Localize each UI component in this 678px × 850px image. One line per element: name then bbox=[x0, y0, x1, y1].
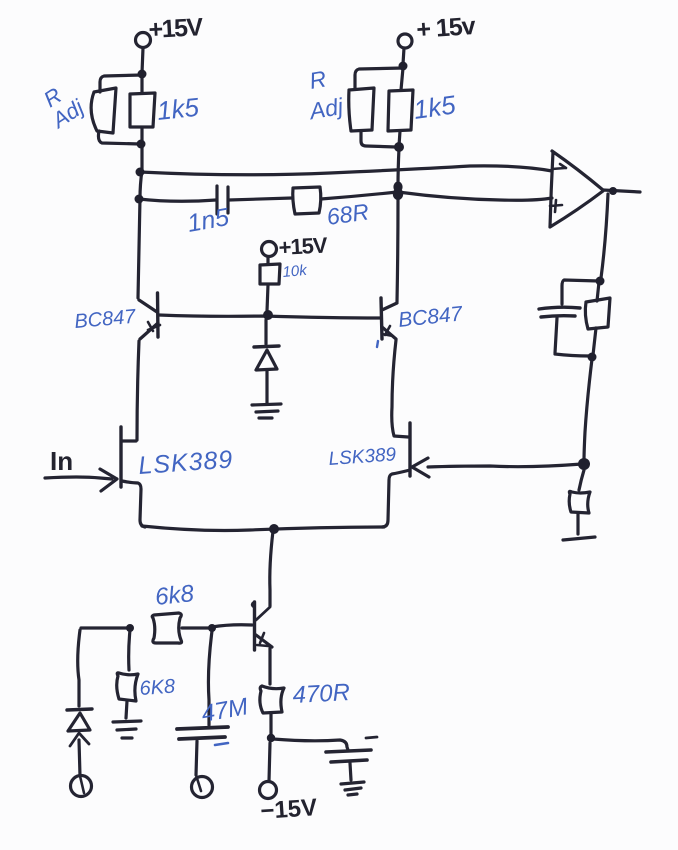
ground stub line bbox=[563, 537, 595, 540]
capacitor 1n5 plate left bbox=[215, 186, 218, 214]
wire inside terminal bottom left bbox=[80, 776, 84, 793]
wire 10K bottom to base rail bbox=[267, 285, 268, 311]
wire feedback cap bottom stub bbox=[555, 318, 590, 356]
wire BC847 right emitter diagonal bbox=[382, 327, 396, 339]
wire 47M to terminal bbox=[196, 741, 197, 775]
capacitor feedback bottom plate bbox=[541, 316, 575, 317]
node left +15V junction bbox=[138, 70, 147, 79]
arrow BC847 left emitter bbox=[148, 322, 160, 331]
wire 1n5 to 68R bbox=[229, 198, 292, 200]
wire D2 to terminal bbox=[79, 740, 80, 776]
wire bottom rail bbox=[142, 526, 384, 531]
wire left branch down to diode D2 bbox=[78, 630, 80, 706]
node 6k8 rail right bbox=[208, 624, 216, 632]
wire left JFET source to bottom rail bbox=[122, 481, 145, 527]
terminal +15V middle (circle) bbox=[262, 242, 277, 257]
node plus line right upper bbox=[393, 182, 402, 193]
JFET LSK389 right channel bar bbox=[408, 423, 411, 476]
resistor 10K (box) bbox=[260, 264, 280, 284]
svg-text:10k: 10k bbox=[282, 262, 309, 281]
svg-text:6k8: 6k8 bbox=[154, 580, 196, 611]
node feedback bottom bbox=[588, 353, 597, 362]
diode D2 cathode bar bbox=[67, 709, 92, 710]
wire BC847 left emitter diagonal bbox=[140, 323, 158, 339]
wire op-amp output down to feedback bbox=[601, 194, 608, 278]
wire Q3 emitter down to 470R bbox=[268, 648, 271, 684]
wire base rail between BC847s bbox=[159, 315, 380, 318]
transistor BC847 left bar bbox=[156, 293, 160, 337]
transistor BC847 right bar bbox=[381, 298, 382, 339]
wire branch to R-Adj left top bbox=[100, 75, 142, 92]
wire decoupling cap to ground bbox=[350, 763, 351, 780]
diode D1 cathode bar bbox=[254, 346, 279, 347]
wire inside terminal bottom middle bbox=[196, 775, 201, 791]
wire feedback node down to gate node bbox=[584, 359, 592, 461]
op-amp minus input mark bbox=[552, 164, 566, 169]
transistor Q3 bar bbox=[253, 602, 256, 650]
node minus line left bbox=[136, 168, 145, 177]
svg-text:470R: 470R bbox=[292, 679, 351, 709]
capacitor 47M bottom plate bbox=[179, 737, 225, 739]
wire BC847 left collector diagonal bbox=[139, 300, 157, 312]
arrow BC847 right emitter bbox=[382, 326, 393, 336]
arrow Q3 emitter bbox=[257, 633, 268, 646]
capacitor decoupling top plate bbox=[326, 750, 371, 752]
arrow gate right JFET bbox=[412, 458, 429, 477]
svg-text:+15V: +15V bbox=[148, 13, 204, 44]
trimmer R Adj right (box) bbox=[349, 88, 374, 131]
wire feedback resistor top stub bbox=[597, 282, 599, 301]
wire right 1K5 bottom to node bbox=[399, 131, 400, 146]
ground symbol 6K8 bbox=[113, 721, 141, 738]
svg-text:1k5: 1k5 bbox=[155, 92, 200, 126]
capacitor decoupling bottom plate bbox=[331, 760, 367, 762]
diode D2 triangle bbox=[68, 713, 90, 731]
wire 6K8 shunt to ground bbox=[126, 701, 127, 718]
wire +15V left stem bbox=[142, 48, 143, 73]
wire branch to R-Adj right top bbox=[355, 68, 403, 88]
resistor 6k8 series (box) bbox=[152, 613, 181, 643]
arrow In gate bbox=[100, 469, 117, 491]
op-amp U1 triangle bbox=[550, 151, 603, 227]
wire -15V node to terminal bbox=[269, 743, 270, 781]
wire 6K8 shunt top bbox=[129, 630, 130, 670]
node 6k8 rail left bbox=[126, 624, 134, 632]
terminal +15V left (circle) bbox=[136, 33, 151, 48]
wire +15V right stem bbox=[403, 48, 404, 64]
wire BC847 right collector diagonal bbox=[382, 303, 397, 310]
wire 6k8 rail left segment bbox=[81, 626, 130, 629]
wire 6k8 rail right segment bbox=[182, 626, 211, 629]
wire +15V middle stem bbox=[266, 257, 269, 264]
node base rail bbox=[263, 310, 273, 320]
wire plus node to op-amp plus input bbox=[398, 192, 552, 200]
wire 470R to -15V node bbox=[269, 713, 272, 736]
capacitor 47M top plate bbox=[177, 727, 228, 729]
wire feedback top left to cap bbox=[562, 280, 599, 304]
node left R-Adj bottom junction bbox=[137, 140, 146, 149]
terminal bottom left (circle) bbox=[71, 776, 92, 797]
wire right rail down through plus node to BC847 right collector bbox=[397, 148, 399, 302]
svg-text:1k5: 1k5 bbox=[412, 89, 458, 125]
label R Adj right bbox=[300, 63, 345, 124]
svg-text:6K8: 6K8 bbox=[139, 676, 176, 700]
resistor 6K8 shunt (box) bbox=[117, 673, 138, 701]
polarity tick decoupling cap bbox=[366, 737, 377, 738]
wire gate node down to resistor bbox=[579, 470, 584, 490]
wire base rail node down to diode bbox=[264, 320, 267, 344]
wire diode to ground bbox=[265, 370, 268, 403]
node feedback top bbox=[596, 277, 605, 286]
wire R-Adj left bottom to rail bbox=[98, 131, 140, 144]
wire Q3 base from 6k8 rail bbox=[212, 625, 252, 627]
node plus line left bbox=[135, 195, 144, 204]
ground symbol bottom right bbox=[341, 782, 364, 795]
wire feedback resistor bottom stub bbox=[593, 328, 596, 355]
polarity minus 47M bbox=[215, 743, 228, 745]
wire Q3 collector diagonal bbox=[252, 603, 270, 620]
resistor feedback (box) bbox=[585, 298, 610, 329]
node right R-Adj bottom junction bbox=[394, 142, 404, 152]
resistor 470R (box) bbox=[260, 686, 284, 713]
terminal bottom middle (circle) bbox=[192, 777, 213, 798]
trimmer R Adj left (rough box) bbox=[91, 88, 116, 133]
wire gate line right JFET bbox=[428, 464, 582, 467]
terminal +15V right (circle) bbox=[398, 34, 412, 48]
wire left JFET drain bbox=[122, 439, 136, 442]
tick BC847 right bbox=[377, 341, 378, 347]
resistor 1K5 left (box) bbox=[130, 93, 155, 127]
wire left rail 1K5 bottom down through nodes to BC847 collector bbox=[138, 128, 142, 298]
wire op-amp minus line (horizontal) bbox=[140, 166, 552, 175]
ground symbol middle bbox=[252, 404, 281, 418]
terminal -15V (circle) bbox=[260, 782, 277, 799]
node gate bbox=[578, 458, 590, 470]
wire bottom rail node down to current-source BJT bbox=[270, 531, 273, 606]
wire op-amp output right bbox=[603, 190, 640, 192]
wire R-Adj right bottom to node bbox=[361, 131, 396, 147]
resistor tail (box) bbox=[569, 491, 590, 513]
resistor 1K5 right (box) bbox=[388, 90, 413, 131]
svg-text:+ 15v: + 15v bbox=[415, 12, 476, 44]
wire left BC847 emitter down to JFET drain bbox=[137, 341, 139, 440]
svg-text:In: In bbox=[50, 446, 73, 476]
node op-amp output bbox=[609, 187, 617, 195]
wire left rail upper (junction to 1K5 top) bbox=[140, 75, 143, 93]
node right +15V junction bbox=[399, 62, 408, 71]
svg-text:−15V: −15V bbox=[260, 794, 318, 825]
arrow diode D2 anode bbox=[70, 733, 89, 746]
wire right 1K5 top bbox=[401, 68, 403, 90]
resistor 68R (box) bbox=[293, 187, 321, 214]
wire In input bbox=[45, 477, 112, 479]
wire right BC847 emitter down to JFET drain bbox=[392, 340, 408, 437]
wire op-amp plus line left segment (to 1n5 cap) bbox=[139, 199, 216, 201]
op-amp plus input mark bbox=[550, 200, 562, 212]
wire 68R to plus node bbox=[321, 192, 397, 199]
diode D1 triangle bbox=[256, 350, 277, 370]
wire -15V node to decoupling cap bbox=[273, 739, 348, 750]
svg-text:+15V: +15V bbox=[278, 232, 329, 260]
JFET LSK389 left channel bar bbox=[119, 427, 122, 487]
capacitor 1n5 plate right bbox=[226, 187, 229, 213]
capacitor feedback top plate bbox=[539, 307, 580, 309]
wire 47M cap top bbox=[208, 631, 212, 725]
node -15V bbox=[267, 734, 275, 742]
wire tail resistor to ground stub bbox=[576, 514, 579, 534]
wire right JFET source down to bottom rail bbox=[382, 470, 410, 527]
node bottom rail bbox=[269, 524, 279, 534]
node plus line right lower bbox=[393, 188, 403, 200]
label R Adj left bbox=[34, 75, 89, 133]
wire Q3 emitter diagonal bbox=[256, 635, 272, 647]
